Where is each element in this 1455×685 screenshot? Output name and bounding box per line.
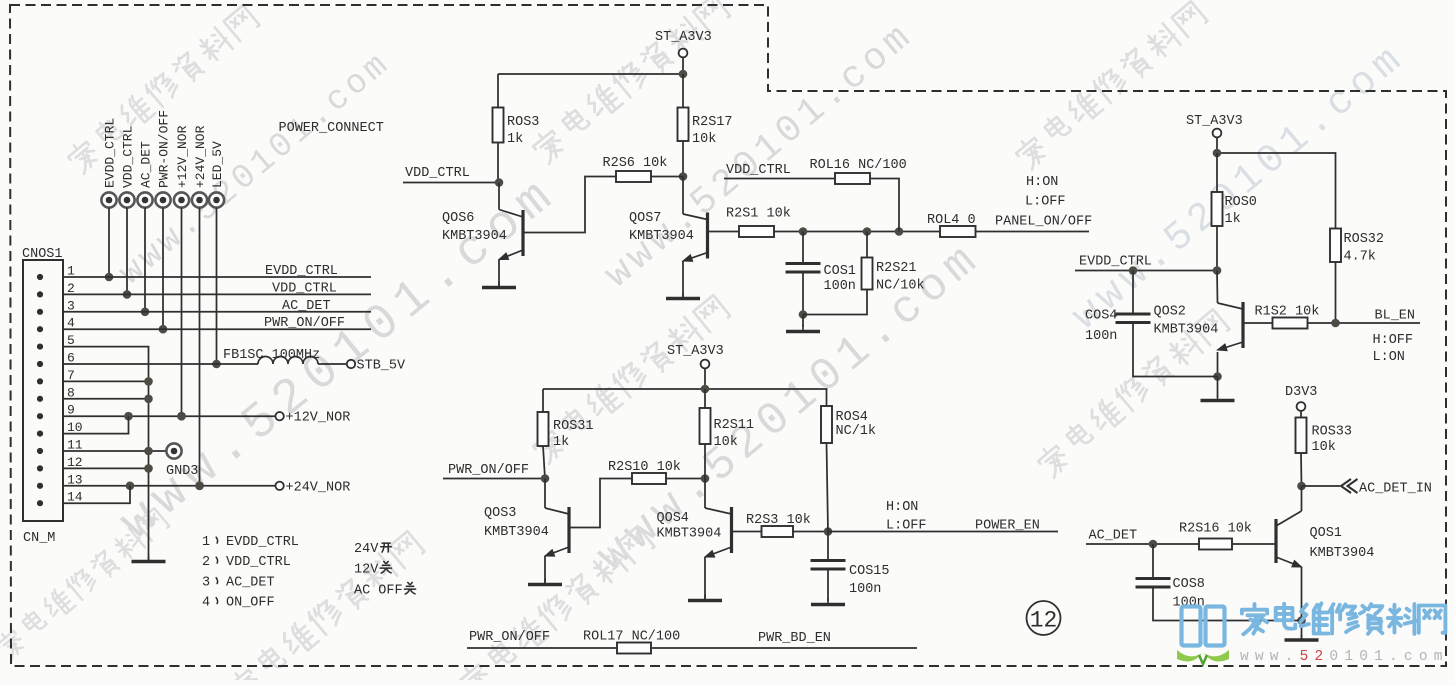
svg-text:AC OFF: AC OFF [354,584,403,599]
svg-text:PWR_BD_EN: PWR_BD_EN [758,631,831,646]
wire pin9 to +12V_NOR [63,412,276,421]
terminal +12V_NOR [275,411,350,426]
terminal ST_A3V3 (top) [655,30,712,74]
svg-text:ST_A3V3: ST_A3V3 [667,344,724,359]
resistor ROS32 [1330,229,1384,265]
svg-text:QOS6: QOS6 [442,211,474,226]
svg-text:H:ON: H:ON [1026,175,1058,190]
svg-text:100n: 100n [1085,329,1117,344]
resistor R1S2 [1255,305,1320,329]
transistor QOS7 KMBT3904 [629,177,708,298]
svg-text:+24V_NOR: +24V_NOR [193,125,208,188]
capacitor COS4 100n [1085,266,1218,376]
pad +24V_NOR [192,125,208,207]
wire ST_A3V3 rail to ROS3 [498,70,687,108]
svg-text:PANEL_ON/OFF: PANEL_ON/OFF [995,215,1092,230]
svg-text:R2S16 10k: R2S16 10k [1179,522,1252,537]
svg-text:AC_DET_IN: AC_DET_IN [1359,482,1432,497]
svg-text:VDD_CTRL: VDD_CTRL [726,163,791,178]
svg-text:10k: 10k [692,132,716,147]
svg-text:1: 1 [202,535,210,550]
wire pin14 jog to pin13 [63,486,130,503]
ground COS1/R2S21 [786,315,820,332]
resistor R2S10 [608,460,681,484]
svg-text:L:OFF: L:OFF [1025,195,1066,210]
svg-text:12: 12 [1030,608,1058,634]
wire +12V_NOR pad drop [177,208,186,421]
svg-text:12V: 12V [354,563,379,578]
svg-text:KMBT3904: KMBT3904 [657,527,722,542]
wire LED_5V pad drop [212,208,221,369]
wire ferrite to STB_5V [318,363,347,365]
terminal ST_A3V3 (middle) [667,344,724,389]
pad GND3 [166,443,198,479]
svg-text:GND3: GND3 [166,464,198,479]
svg-text:1k: 1k [1225,212,1241,227]
wire +24V_NOR pad drop [195,208,204,491]
ferrite bead FB1SC 100MHz [223,348,320,364]
resistor ROS31 [538,412,594,450]
pin numbers 1-14 [67,264,83,505]
wire junction to AC_DET_IN [1302,485,1341,487]
wire pin10 jog to pin9 [63,416,129,433]
svg-text:1k: 1k [553,435,569,450]
ground QOS6 emitter [482,282,516,288]
svg-text:L:ON: L:ON [1373,350,1405,365]
svg-text:PWR_ON/OFF: PWR_ON/OFF [469,630,550,645]
wire R2S11 leads [704,389,706,479]
wire ROS0 leads [1216,153,1218,271]
svg-text:+24V_NOR: +24V_NOR [286,480,351,495]
svg-text:COS1: COS1 [824,264,856,279]
wire ROS4 leads [827,389,829,532]
svg-text:AC_DET: AC_DET [1089,529,1138,544]
svg-text:QOS7: QOS7 [629,211,661,226]
wire R2S10 left to QOS3 base [569,479,632,528]
svg-text:ROS31: ROS31 [553,419,594,434]
svg-text:VDD_CTRL: VDD_CTRL [121,126,136,188]
svg-text:ST_A3V3: ST_A3V3 [655,30,712,45]
svg-text:R2S10 10k: R2S10 10k [608,460,681,475]
wire R2S3 to POWER_EN node [793,527,832,536]
svg-text:4.7k: 4.7k [1344,250,1376,265]
wire R1S2 to BL_EN [1308,319,1421,328]
resistor ROL16 [810,158,907,184]
connector CNOS1 body [22,247,63,546]
svg-text:H:OFF: H:OFF [1373,333,1414,348]
net label AC_DET [1086,529,1199,549]
svg-text:KMBT3904: KMBT3904 [629,229,694,244]
svg-text:KMBT3904: KMBT3904 [1154,323,1219,338]
svg-text:EVDD_CTRL: EVDD_CTRL [265,264,338,279]
svg-text:10k: 10k [714,435,738,450]
wire pin2 VDD_CTRL [63,281,371,296]
resistor ROS4 [821,406,876,443]
wire pin8 to ground rail [63,395,153,404]
svg-text:POWER_CONNECT: POWER_CONNECT [279,121,384,136]
wire ROS32 to BL_EN junction [1335,262,1337,323]
svg-text:ON_OFF: ON_OFF [226,596,275,611]
svg-text:10k: 10k [1312,440,1336,455]
svg-text:KMBT3904: KMBT3904 [484,525,549,540]
svg-text:VDD_CTRL: VDD_CTRL [226,555,291,570]
page number 12 [1027,601,1061,635]
resistor R2S16 [1179,522,1252,550]
svg-text:EVDD_CTRL: EVDD_CTRL [226,535,299,550]
net label VDD_CTRL (2nd) [724,163,835,179]
resistor R2S17 [678,108,733,148]
capacitor COS1 100n [786,232,856,319]
wire POWER_EN line [828,531,1058,533]
wire QOS4 base to R2S3 [732,531,762,533]
pad LED_5V [209,141,225,208]
transistor QOS3 KMBT3904 [484,479,569,584]
logo book icon [1177,607,1229,665]
wire EVDD_CTRL pad drop [105,208,114,282]
wire ROL17 to PWR_BD_EN [651,647,917,649]
wire pin3 AC_DET [63,299,371,314]
svg-text:R1S2 10k: R1S2 10k [1255,305,1320,320]
wire pin5 to ground rail [63,347,149,560]
wire R2S16 to QOS1 base [1232,543,1276,545]
svg-text:NC/10k: NC/10k [876,279,925,294]
svg-text:FB1SC 100MHz: FB1SC 100MHz [223,348,320,363]
svg-text:L:OFF: L:OFF [886,519,927,534]
capacitor COS8 100n [1136,544,1302,621]
svg-text:2: 2 [202,555,210,570]
svg-text:LED_5V: LED_5V [210,141,225,188]
svg-text:ROL16 NC/100: ROL16 NC/100 [810,158,907,173]
svg-text:NC/1k: NC/1k [836,424,877,439]
svg-text:R2S21: R2S21 [876,261,917,276]
svg-text:KMBT3904: KMBT3904 [1310,546,1375,561]
svg-text:EVDD_CTRL: EVDD_CTRL [103,118,118,188]
svg-text:QOS4: QOS4 [657,511,689,526]
pad +12V_NOR [174,125,190,207]
ground QOS1 emitter [1285,635,1319,640]
wire pin1 EVDD_CTRL [63,264,371,279]
wire R2S6 right to junction [651,176,683,178]
svg-text:R2S3 10k: R2S3 10k [746,513,811,528]
capacitor COS15 100n [811,532,890,602]
ground QOS4 emitter [688,595,722,601]
resistor ROL17 [583,630,680,654]
svg-text:CNOS1: CNOS1 [22,247,63,262]
wire pin4 PWR_ON/OFF [63,316,371,331]
transistor QOS2 KMBT3904 [1154,271,1244,381]
svg-text:1k: 1k [507,132,523,147]
svg-text:PWR_ON/OFF: PWR_ON/OFF [264,316,345,331]
wire pin13 to +24V_NOR [63,482,276,491]
pad PWR-ON/OFF [155,110,171,208]
svg-text:AC_DET: AC_DET [282,299,331,314]
net label AC_DET_IN with chevrons [1341,479,1432,497]
ground QOS3 emitter [528,579,562,585]
terminal ST_A3V3 (right) [1186,114,1243,153]
wire pin6 to ferrite [63,363,258,365]
svg-text:100n: 100n [849,582,881,597]
wire ROS3 to VDD_CTRL node [497,143,499,183]
wire AC_DET pad drop [141,208,150,317]
svg-text:R2S6 10k: R2S6 10k [603,156,668,171]
net label EVDD_CTRL (right) [1075,255,1221,275]
wire PWR-ON/OFF pad drop [159,208,168,334]
resistor R2S21 [862,258,925,294]
wire right rail [1213,149,1336,229]
wire R2S6 left to QOS6 base [523,177,616,233]
note H:ON L:OFF (panel) [1025,175,1066,210]
svg-text:AC_DET: AC_DET [139,141,154,188]
resistor ROS33 [1296,418,1353,456]
svg-text:QOS2: QOS2 [1154,305,1186,320]
logo text blue CJK [1242,603,1446,634]
note H:ON L:OFF (power) [886,500,927,534]
svg-text:www.520101.com: www.520101.com [1240,649,1449,665]
resistor ROL4 [927,213,976,237]
svg-text:PWR-ON/OFF: PWR-ON/OFF [157,110,172,188]
svg-text:CN_M: CN_M [23,531,55,546]
svg-text:EVDD_CTRL: EVDD_CTRL [1079,255,1152,270]
svg-text:+12V_NOR: +12V_NOR [175,125,190,188]
terminal D3V3 [1285,385,1317,418]
svg-text:ROL4 0: ROL4 0 [927,213,976,228]
wire pin11 to GND3 pad [63,447,166,456]
svg-text:ROS33: ROS33 [1312,425,1353,440]
watermark layer (decorative) [64,4,260,175]
svg-text:24V: 24V [354,542,379,557]
svg-text:VDD_CTRL: VDD_CTRL [405,166,470,181]
svg-text:STB_5V: STB_5V [357,359,407,374]
svg-text:4: 4 [202,596,210,611]
wire R2S1 to ROL4 with junctions [774,227,940,236]
svg-text:AC_DET: AC_DET [226,576,275,591]
svg-text:COS4: COS4 [1085,309,1117,324]
transistor QOS1 KMBT3904 (right facing) [1276,486,1374,639]
wire ROS31 to PWR node [543,446,545,479]
ground COS15 [811,599,845,605]
wire ROL4 to PANEL_ON/OFF [976,231,1090,233]
svg-text:100n: 100n [824,279,856,294]
resistor ROS3 [493,108,540,148]
note pin list [202,535,299,611]
ground QOS2 emitter [1201,377,1235,401]
pad VDD_CTRL [119,126,135,208]
wire pin12 to ground rail [63,464,153,473]
wire VDD_CTRL pad drop [123,208,132,299]
svg-text:VDD_CTRL: VDD_CTRL [272,281,337,296]
svg-text:R2S11: R2S11 [714,418,755,433]
wire QOS7 base to R2S1 [708,231,740,233]
svg-text:QOS1: QOS1 [1310,526,1342,541]
transistor QOS6 KMBT3904 [442,183,523,287]
wire pin7 to ground rail [63,377,153,386]
wire ST_A3V3 mid rail [543,385,828,412]
svg-text:+12V_NOR: +12V_NOR [286,411,351,426]
wire ROL16 down to line [870,179,899,232]
resistor R2S3 [746,513,811,537]
svg-text:KMBT3904: KMBT3904 [442,229,507,244]
pad AC_DET [137,141,153,208]
svg-text:POWER_EN: POWER_EN [975,519,1040,534]
svg-text:COS15: COS15 [849,564,890,579]
wire R2S17 to junction [679,141,688,181]
resistor R2S1 [726,207,791,238]
svg-text:ROL17 NC/100: ROL17 NC/100 [583,630,680,645]
pad EVDD_CTRL [101,118,117,208]
svg-text:ROS32: ROS32 [1344,232,1385,247]
svg-text:ROS3: ROS3 [507,115,539,130]
terminal STB_5V [347,359,406,374]
net label PWR_ON/OFF (mid) [443,463,549,483]
wire R2S10 right to junction [666,474,709,483]
resistor ROS0 [1212,192,1257,227]
net label VDD_CTRL [403,166,503,187]
wire QOS2 base to R1S2 [1243,322,1273,324]
svg-text:H:ON: H:ON [886,500,918,515]
svg-text:BL_EN: BL_EN [1375,309,1416,324]
resistor R2S11 [700,408,755,450]
net label PWR_ON/OFF (bottom) [467,630,617,648]
wire R2S21 leads [803,232,867,315]
ground QOS7 emitter [666,293,700,299]
svg-text:PWR_ON/OFF: PWR_ON/OFF [448,463,529,478]
svg-text:ST_A3V3: ST_A3V3 [1186,114,1243,129]
svg-text:D3V3: D3V3 [1285,385,1317,400]
note H:OFF L:ON [1373,333,1414,365]
note switching states [354,542,416,599]
svg-text:QOS3: QOS3 [484,506,516,521]
ground GND rail [132,556,166,562]
terminal +24V_NOR [275,480,350,495]
transistor QOS4 KMBT3904 [657,479,732,600]
svg-text:3: 3 [202,576,210,591]
svg-text:COS8: COS8 [1173,577,1205,592]
wire ROS33 to junction [1297,453,1306,490]
wire junction to R2S17 [682,74,684,108]
svg-text:R2S1 10k: R2S1 10k [726,207,791,222]
svg-text:R2S17: R2S17 [692,115,733,130]
svg-text:ROS0: ROS0 [1225,195,1257,210]
resistor R2S6 [603,156,668,182]
svg-text:ROS4: ROS4 [836,410,868,425]
